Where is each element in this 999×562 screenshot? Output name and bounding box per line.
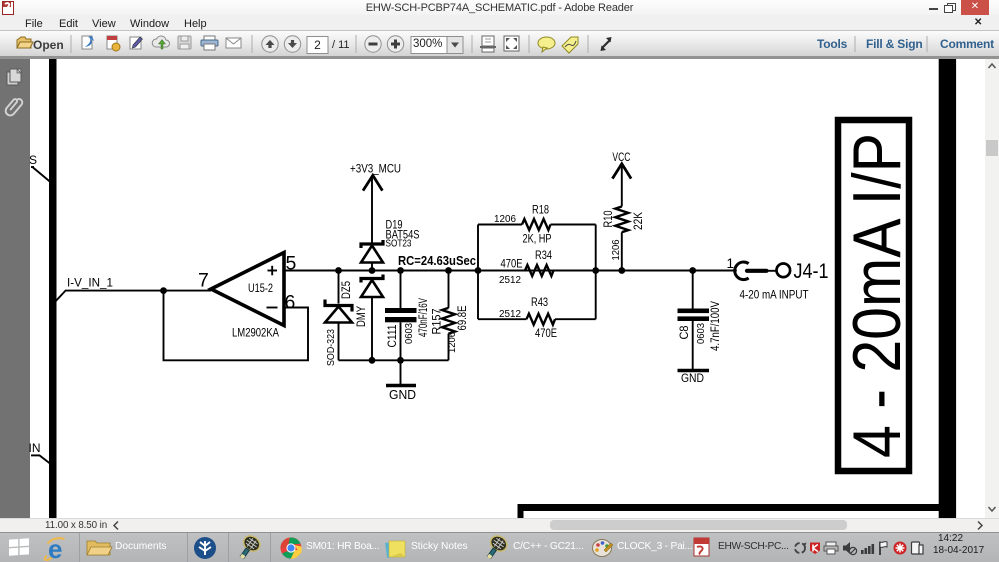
resistor R43 bbox=[478, 297, 596, 340]
wire pin5 main horizontal net bbox=[284, 270, 737, 272]
diode D19 BAT54S (dual schottky) bbox=[361, 220, 420, 361]
icon: page scroll mode bbox=[480, 36, 496, 52]
node C111 top bbox=[397, 267, 404, 274]
start flag bbox=[9, 538, 29, 556]
svg-text:1: 1 bbox=[727, 256, 735, 271]
tray: phone bbox=[912, 542, 924, 554]
pdf icon (active button) bbox=[694, 538, 709, 556]
paint icon bbox=[593, 540, 614, 557]
resistor R157 bbox=[432, 271, 470, 361]
svg-text:GND: GND bbox=[389, 388, 416, 402]
svg-text:1206: 1206 bbox=[447, 332, 458, 353]
menu bar bbox=[0, 15, 999, 31]
title bar bbox=[0, 0, 999, 15]
svg-text:I-V_IN_1: I-V_IN_1 bbox=[67, 278, 113, 290]
svg-text:U15-2: U15-2 bbox=[248, 283, 273, 295]
open folder bbox=[17, 37, 33, 48]
tray: speaker bbox=[843, 542, 857, 555]
svg-text:470E: 470E bbox=[535, 328, 557, 340]
power +3V3_MCU bbox=[350, 164, 401, 243]
wire left rail of resistor bank bbox=[477, 225, 479, 320]
node right rail bbox=[592, 267, 599, 274]
svg-text:2512: 2512 bbox=[499, 309, 521, 320]
node D19/wire junction bbox=[369, 267, 376, 274]
svg-text:IN: IN bbox=[29, 443, 41, 455]
svg-text:S: S bbox=[29, 153, 37, 167]
sheet border left bbox=[49, 59, 57, 518]
icon: fill sign pen bbox=[130, 37, 143, 49]
svg-text:470E: 470E bbox=[501, 259, 523, 271]
op-amp U15-2 bbox=[198, 253, 297, 340]
svg-text:J4-1: J4-1 bbox=[794, 259, 829, 283]
nav circle down bbox=[284, 36, 300, 52]
svg-text:4 - 20mA I/P: 4 - 20mA I/P bbox=[839, 133, 915, 458]
separators bbox=[71, 35, 927, 53]
svg-text:1206: 1206 bbox=[494, 214, 516, 225]
svg-text:SOT23: SOT23 bbox=[386, 239, 412, 250]
icon: fit page bbox=[504, 36, 519, 51]
svg-text:2K, HP: 2K, HP bbox=[523, 234, 552, 246]
icon: sign tag bbox=[562, 37, 578, 53]
capacitor C111 bbox=[385, 271, 430, 361]
svg-text:4-20 mA INPUT: 4-20 mA INPUT bbox=[740, 290, 809, 302]
page background bbox=[30, 59, 985, 518]
node rail D19 bbox=[369, 357, 376, 364]
racket app icon (pinned) bbox=[235, 533, 263, 562]
svg-text:R34: R34 bbox=[535, 250, 552, 262]
resistor R10 bbox=[603, 207, 645, 271]
racket icon (C/C++ button) bbox=[482, 533, 510, 562]
svg-text:R157: R157 bbox=[432, 309, 444, 335]
icon: envelope bbox=[226, 38, 241, 48]
toolbar bbox=[0, 31, 999, 59]
title block top line bbox=[518, 504, 940, 511]
svg-text:C111: C111 bbox=[387, 325, 399, 348]
wire I-V_IN_1 (op-amp output net) bbox=[54, 291, 212, 304]
tray: printer bbox=[824, 542, 838, 554]
title box 4 - 20mA I/P bbox=[838, 120, 915, 471]
tray: red K bbox=[810, 543, 820, 555]
svg-text:DMY: DMY bbox=[356, 306, 368, 327]
status row bbox=[0, 518, 999, 533]
icon: send file bbox=[82, 36, 94, 49]
zener DZ5 bbox=[325, 271, 368, 367]
svg-text:0603: 0603 bbox=[696, 323, 707, 344]
blue circle app icon bbox=[194, 537, 216, 559]
node DZ5 top bbox=[335, 267, 342, 274]
wire feedback loop bbox=[164, 291, 309, 361]
resistor R34 bbox=[478, 250, 596, 286]
page box bbox=[307, 37, 328, 54]
svg-text:RC=24.63uSec: RC=24.63uSec bbox=[398, 253, 476, 268]
svg-text:LM2902KA: LM2902KA bbox=[232, 326, 279, 340]
icon: floppy bbox=[178, 36, 191, 49]
svg-text:C8: C8 bbox=[679, 326, 691, 340]
svg-text:SOD-323: SOD-323 bbox=[325, 329, 337, 366]
nav circle up bbox=[262, 36, 278, 52]
svg-text:4.7nF/100V: 4.7nF/100V bbox=[710, 301, 722, 351]
tray: signal bars bbox=[861, 544, 874, 554]
connector J4-1 bbox=[727, 256, 829, 302]
node rail C111 bbox=[397, 357, 404, 364]
ground GND (under C8) bbox=[678, 371, 710, 386]
svg-text:470nF/16V: 470nF/16V bbox=[418, 298, 430, 337]
icon: cloud upload bbox=[152, 36, 169, 49]
tray: refresh bbox=[795, 543, 807, 554]
svg-text:0603: 0603 bbox=[404, 323, 415, 344]
sheet border right bbox=[939, 59, 956, 518]
tray: red asterisk bbox=[894, 542, 907, 555]
minus circle bbox=[365, 36, 381, 52]
svg-text:+3V3_MCU: +3V3_MCU bbox=[350, 164, 401, 176]
resistor R18 bbox=[478, 205, 596, 246]
svg-text:R10: R10 bbox=[603, 211, 615, 228]
IE icon bbox=[45, 534, 65, 562]
power VCC bbox=[612, 152, 631, 207]
wire right rail of resistor bank bbox=[595, 225, 597, 320]
plus circle bbox=[387, 36, 403, 52]
taskbar bbox=[0, 532, 999, 562]
title block left line bbox=[518, 504, 524, 518]
tray: flag bbox=[880, 542, 887, 555]
wire bottom rail bbox=[339, 359, 449, 361]
node R157 top bbox=[445, 267, 452, 274]
svg-text:DZ5: DZ5 bbox=[341, 281, 353, 299]
zoom box bbox=[411, 37, 447, 54]
off-page connector IN bbox=[31, 455, 50, 463]
svg-text:1206: 1206 bbox=[611, 239, 622, 260]
svg-text:7: 7 bbox=[198, 270, 209, 292]
svg-text:6: 6 bbox=[285, 292, 296, 314]
icon: comment bubble bbox=[538, 37, 555, 52]
svg-text:R43: R43 bbox=[531, 297, 548, 309]
ground GND (under C111) bbox=[386, 360, 416, 402]
svg-text:GND: GND bbox=[681, 371, 704, 385]
icon: printer bbox=[201, 36, 218, 50]
sidebar icons bbox=[0, 59, 30, 129]
capacitor C8 bbox=[678, 271, 723, 370]
chrome icon bbox=[280, 536, 301, 561]
icon: expand arrows bbox=[601, 37, 612, 51]
icon: export pdf bbox=[107, 36, 120, 51]
node feedback junction bbox=[160, 287, 167, 294]
svg-text:2512: 2512 bbox=[499, 275, 521, 286]
documents folder icon bbox=[87, 541, 112, 555]
svg-text:R18: R18 bbox=[532, 205, 549, 217]
svg-text:22K: 22K bbox=[633, 212, 645, 230]
off-page connector S bbox=[31, 167, 51, 183]
node C8 top bbox=[689, 267, 696, 274]
sticky notes icon bbox=[385, 541, 405, 558]
node R10 bottom bbox=[618, 267, 625, 274]
svg-text:69.8E: 69.8E bbox=[457, 305, 469, 330]
node left rail bbox=[475, 267, 482, 274]
